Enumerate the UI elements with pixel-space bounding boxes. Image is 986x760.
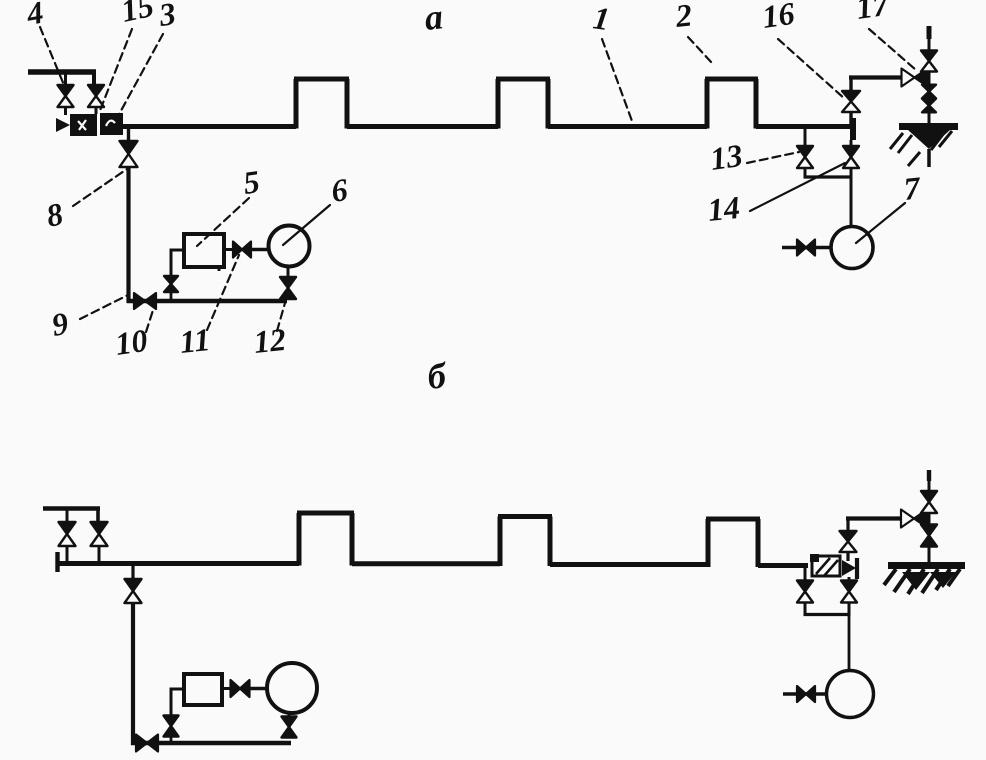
label 2 — [673, 0, 712, 63]
riser valve b — [840, 531, 857, 552]
wire — [850, 168, 853, 177]
label 5 — [197, 163, 262, 246]
header bar — [28, 70, 96, 84]
label 9 — [49, 295, 128, 343]
bypass valve A stem b — [804, 567, 807, 580]
valve 17 — [902, 69, 928, 87]
bypass valve B stem b — [848, 577, 851, 580]
gauge 7 stub — [782, 246, 831, 250]
wire to pump b — [170, 689, 185, 715]
svg-text:а: а — [423, 0, 445, 38]
wire — [849, 76, 852, 91]
pump 5 — [184, 234, 224, 271]
label 14 — [706, 163, 845, 228]
wire — [804, 168, 807, 177]
label 10 — [113, 304, 155, 362]
svg-text:16: 16 — [760, 0, 797, 35]
label 16 — [760, 0, 845, 99]
drop valve stem b — [131, 565, 134, 579]
label b (scheme variant b) — [426, 355, 450, 397]
loop valve b — [136, 735, 158, 752]
bypass connect b — [804, 613, 851, 616]
wire — [98, 546, 101, 564]
valve 13 — [797, 146, 813, 168]
wire — [224, 248, 233, 251]
riser to overhead — [849, 112, 852, 126]
svg-text:13: 13 — [708, 137, 745, 177]
gauge block 15 right — [100, 113, 123, 135]
valve 13 stem — [804, 128, 807, 146]
overhead line — [849, 75, 902, 79]
valve 14 — [843, 146, 859, 168]
label 3 — [117, 0, 178, 118]
drop wire b — [131, 603, 135, 745]
label 15 — [99, 0, 157, 113]
main pipeline b — [56, 513, 808, 567]
bypass connect line — [804, 175, 853, 178]
drop valve b — [125, 579, 142, 603]
valve 12 stem — [287, 266, 290, 277]
end tick b — [855, 558, 859, 579]
pressure gauge 6 — [269, 226, 310, 267]
wire — [66, 546, 69, 564]
stub valve b — [797, 686, 815, 702]
stack valve lower b — [921, 525, 937, 547]
gauge 7 b — [827, 671, 874, 718]
inlet valve left b — [59, 522, 76, 546]
valve 12 — [280, 277, 296, 299]
orifice unit b — [810, 554, 840, 576]
stack pipe b — [928, 470, 931, 562]
valve 14 stem — [850, 140, 853, 146]
valve 8 stem — [127, 128, 130, 141]
wire — [251, 248, 269, 251]
valve 3 stem — [95, 84, 98, 85]
wire — [250, 687, 267, 690]
valve 11 — [164, 276, 178, 292]
wire — [846, 517, 849, 531]
gauge valve b — [282, 717, 297, 738]
header bar b — [43, 507, 100, 521]
pump b — [184, 674, 222, 705]
label 4 — [23, 0, 64, 85]
wire to pump — [170, 250, 185, 277]
bypass valve B b — [841, 581, 857, 603]
valve 16 — [842, 91, 860, 112]
flare stack pipe — [928, 26, 931, 123]
wire — [95, 107, 98, 114]
end valve b — [842, 560, 856, 576]
gauge block 15 left — [70, 114, 97, 136]
label 17 — [854, 0, 916, 70]
branch valve b — [164, 716, 179, 737]
wire — [848, 603, 851, 615]
riser wire down — [126, 167, 130, 303]
ground symbol — [890, 127, 958, 168]
svg-text:11: 11 — [178, 321, 212, 360]
label a (scheme variant a) — [423, 0, 445, 38]
label 13 — [708, 137, 799, 177]
inlet triangle — [56, 118, 70, 132]
left end tick b — [55, 552, 59, 572]
riser b — [846, 552, 849, 561]
stack valve upper — [921, 51, 937, 72]
branch stem b — [170, 737, 173, 743]
valve 11 branch stem — [170, 293, 173, 301]
main pipeline 1 — [122, 79, 853, 129]
end tee bar — [850, 118, 856, 140]
inlet valve right b — [91, 522, 108, 546]
bottom loop line — [127, 299, 287, 304]
svg-text:14: 14 — [706, 189, 742, 228]
valve 3 — [88, 85, 104, 107]
valve 4 — [58, 85, 74, 107]
wire — [64, 107, 67, 115]
overhead line b — [846, 516, 902, 520]
stack valve mid — [922, 85, 936, 99]
gauge 7 stub b — [783, 692, 827, 696]
gauge circle b — [267, 663, 317, 713]
overhead valve b — [901, 510, 927, 528]
valve 8 — [120, 141, 138, 167]
gauge valve b stem — [288, 712, 291, 716]
bottom loop line b — [131, 741, 291, 746]
stub valve — [797, 240, 815, 256]
wire down b — [848, 615, 851, 672]
check valve b — [231, 680, 250, 697]
wire stem left — [64, 74, 67, 85]
wire — [66, 510, 69, 522]
pressure gauge 7 — [831, 227, 873, 269]
label 8 — [43, 169, 127, 234]
stack valve upper b — [921, 491, 937, 513]
wire — [222, 687, 231, 690]
label 12 — [252, 303, 288, 360]
label 1 — [591, 0, 632, 121]
label 7 — [856, 169, 924, 243]
svg-text:10: 10 — [113, 322, 150, 362]
wire down to gauge — [850, 177, 853, 227]
stack valve lower — [922, 99, 936, 113]
check valve after pump — [233, 242, 251, 258]
wire — [804, 603, 807, 615]
valve 10 — [134, 293, 156, 309]
svg-text:12: 12 — [252, 321, 288, 360]
label 11 — [178, 255, 239, 360]
label 6 — [283, 171, 350, 245]
bypass valve A b — [797, 581, 813, 603]
ground symbol b — [884, 566, 965, 595]
